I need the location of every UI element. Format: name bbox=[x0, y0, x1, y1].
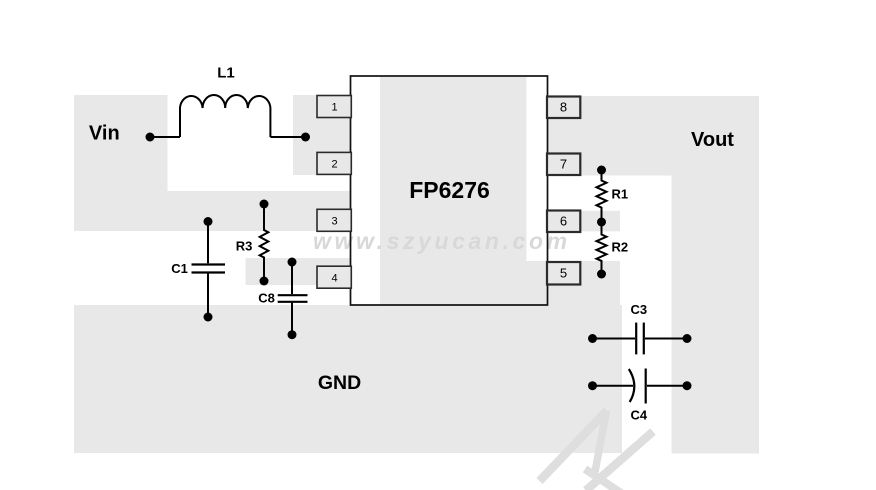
capacitor C8 bbox=[278, 258, 308, 340]
node C4 left dot bbox=[588, 381, 597, 390]
node C1 top dot bbox=[204, 217, 213, 226]
svg-text:4: 4 bbox=[331, 273, 337, 285]
resistor R2 bbox=[597, 222, 607, 279]
node Vin junction dot bbox=[146, 133, 155, 142]
wire C8 top lead bbox=[291, 262, 293, 294]
C1 bottom plate bbox=[192, 271, 226, 273]
copper pour: Vout plane bbox=[547, 96, 759, 176]
C4 curved plate bbox=[629, 369, 635, 402]
svg-text:7: 7 bbox=[560, 157, 567, 172]
node R3 top dot bbox=[260, 200, 269, 209]
C8 top plate bbox=[278, 294, 308, 296]
R2 zigzag body bbox=[597, 222, 607, 274]
copper pour: Vin plane bbox=[74, 95, 168, 192]
copper pour: band behind pin 6 bbox=[547, 211, 620, 232]
pin 3 bbox=[317, 209, 351, 231]
capacitor C4 polarized bbox=[588, 369, 692, 404]
wire C4 left lead bbox=[593, 385, 634, 387]
wire C3 left lead bbox=[593, 338, 636, 340]
op-amp U1 FP6276 outline bbox=[351, 76, 548, 305]
pin 1 bbox=[317, 96, 351, 118]
node FB junction dot bbox=[597, 218, 606, 227]
pin 2 bbox=[317, 152, 351, 174]
wire L1 to SW node bbox=[270, 136, 305, 138]
resistor R1 bbox=[597, 166, 607, 223]
node C1 ground dot bbox=[204, 313, 213, 322]
svg-text:C1: C1 bbox=[171, 261, 188, 276]
node C4 right dot bbox=[683, 381, 692, 390]
wire Vin to L1 bbox=[150, 136, 180, 138]
capacitor C1 bbox=[192, 217, 226, 322]
inductor L1 bbox=[180, 95, 270, 137]
pin 8 bbox=[547, 97, 580, 119]
svg-text:6: 6 bbox=[560, 214, 567, 229]
svg-text:8: 8 bbox=[560, 100, 567, 115]
svg-text:2: 2 bbox=[331, 159, 337, 171]
watermark logo glyph bbox=[540, 411, 654, 490]
pin 7 bbox=[547, 154, 580, 176]
node R1 top dot bbox=[597, 166, 606, 175]
svg-text:Vin: Vin bbox=[89, 123, 120, 145]
IC body fill bbox=[380, 77, 527, 305]
node C3 right dot bbox=[683, 334, 692, 343]
C3 right plate bbox=[643, 323, 645, 355]
node C8 top dot bbox=[288, 258, 297, 267]
pin 4 bbox=[317, 266, 351, 288]
svg-text:R1: R1 bbox=[611, 187, 628, 202]
node R2 bottom dot bbox=[597, 270, 606, 279]
wire C1 top lead bbox=[207, 222, 209, 264]
R3 zigzag body bbox=[260, 204, 269, 281]
R1 zigzag body bbox=[597, 170, 607, 222]
svg-text:C3: C3 bbox=[630, 302, 647, 317]
svg-text:1: 1 bbox=[331, 102, 337, 114]
copper pour: GND plane bbox=[74, 305, 622, 453]
pin 5 bbox=[547, 262, 580, 285]
node C3 left dot bbox=[588, 334, 597, 343]
C4 straight plate bbox=[645, 369, 647, 404]
copper pour: right vertical strip bbox=[672, 176, 760, 454]
svg-text:C4: C4 bbox=[630, 408, 647, 423]
C8 bottom plate bbox=[278, 301, 308, 303]
wire C8 bottom lead bbox=[291, 303, 293, 335]
copper pour: band behind pin 4 bbox=[246, 258, 351, 285]
node C8 ground dot bbox=[288, 330, 297, 339]
svg-text:FP6276: FP6276 bbox=[409, 177, 490, 203]
svg-text:Vout: Vout bbox=[691, 129, 734, 151]
resistor R3 bbox=[260, 200, 269, 286]
svg-text:C8: C8 bbox=[258, 291, 275, 306]
svg-text:5: 5 bbox=[560, 266, 567, 281]
svg-text:L1: L1 bbox=[217, 65, 235, 82]
node SW junction dot bbox=[301, 133, 310, 142]
svg-text:R3: R3 bbox=[236, 239, 253, 254]
wire C4 right lead bbox=[647, 385, 687, 387]
svg-text:GND: GND bbox=[318, 372, 361, 394]
svg-text:R2: R2 bbox=[611, 240, 628, 255]
C1 top plate bbox=[192, 263, 226, 265]
copper pour: behind pins 1-2 bbox=[293, 95, 351, 175]
wire C1 bottom lead bbox=[207, 274, 209, 318]
C3 left plate bbox=[635, 323, 637, 355]
node R3 bottom dot bbox=[260, 277, 269, 286]
svg-text:3: 3 bbox=[331, 216, 337, 228]
wire C3 right lead bbox=[645, 338, 687, 340]
pin 6 bbox=[547, 211, 580, 233]
copper pour: around pin 5 bbox=[527, 261, 621, 305]
capacitor C3 bbox=[588, 323, 692, 355]
copper pour: horizontal band to pin 3 bbox=[74, 191, 351, 231]
